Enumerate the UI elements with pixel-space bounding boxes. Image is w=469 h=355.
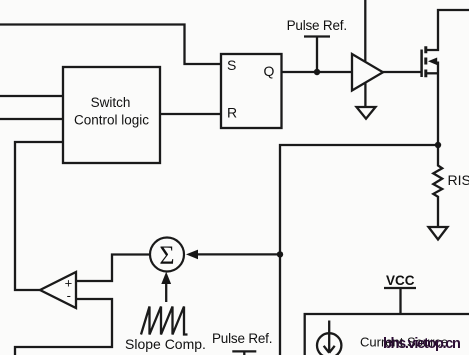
svg-text:Pulse Ref.: Pulse Ref.	[287, 18, 347, 33]
svg-text:R: R	[227, 105, 237, 121]
svg-text:Σ: Σ	[159, 241, 174, 270]
svg-text:Switch: Switch	[91, 95, 131, 110]
svg-text:bhs.vietop.cn: bhs.vietop.cn	[383, 336, 460, 352]
svg-text:Pulse Ref.: Pulse Ref.	[212, 331, 272, 346]
svg-text:S: S	[227, 57, 236, 73]
svg-text:RISE: RISE	[448, 172, 469, 188]
svg-text:VCC: VCC	[386, 273, 415, 288]
svg-text:Control logic: Control logic	[74, 113, 149, 128]
svg-text:Slope Comp.: Slope Comp.	[125, 336, 206, 352]
svg-text:Q: Q	[264, 63, 275, 79]
svg-text:-: -	[67, 288, 71, 303]
